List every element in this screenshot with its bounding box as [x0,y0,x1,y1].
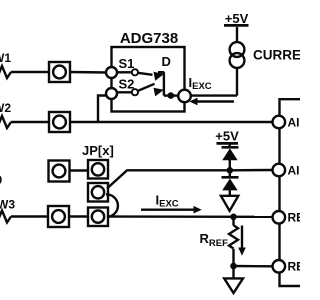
connector JP pin 1 left [49,161,70,182]
svg-text:REFIN(+): REFIN(+) [288,211,301,225]
pin S1 [106,67,117,78]
svg-text:+5V: +5V [215,128,239,143]
ground clamp [221,196,238,211]
connector T1 [49,62,70,82]
wire [236,68,238,96]
power +5V rail top [224,24,249,27]
svg-text:0: 0 [0,173,3,187]
wire [236,27,238,42]
svg-text:S2: S2 [119,77,135,92]
connector T2 [49,112,70,132]
wire [69,215,88,217]
switch S2 [117,84,164,97]
switch S1 [117,69,164,80]
pin AIN1 [273,116,286,129]
svg-text:W1: W1 [0,51,11,65]
power +5V rail clamp [217,142,239,145]
pin S2 [106,88,117,99]
wire arc jumper [106,194,118,216]
svg-text:AIN2: AIN2 [288,163,301,177]
wire [164,94,178,96]
svg-text:S1: S1 [119,56,135,71]
wire [107,170,230,188]
svg-text:W3: W3 [0,198,15,212]
svg-text:REFIN(−): REFIN(−) [288,260,301,274]
diode D2 clamp to ground [222,177,239,190]
connector JP pin 3 [88,208,108,227]
pin AIN2 [273,164,286,177]
annotation arrow Rref current [238,226,246,256]
wire [230,169,273,172]
svg-text:ADG738: ADG738 [120,30,178,47]
wire [11,121,49,123]
diode D1 clamp to +5V [222,147,239,160]
svg-text:AIN1: AIN1 [288,115,301,129]
wire [11,215,48,217]
node Rref bottom junction [230,263,237,270]
svg-text:JP[x]: JP[x] [82,143,114,158]
wire [234,265,273,268]
annotation arrow Iexc right [141,206,202,214]
annotation arrow Iexc into D [189,98,234,106]
wire [109,215,273,218]
node mux output junction [168,92,175,99]
wire [70,121,273,123]
connector T3 [48,206,69,227]
resistor W2 [0,116,11,128]
wire mux common bus [163,72,165,95]
ground Rref [224,278,243,293]
connector JP pin 2 [88,183,108,202]
resistor RREF [229,217,238,266]
current source I1 [230,42,245,68]
wire [229,160,231,170]
multiplexer U1 ADG738 box [112,47,185,112]
wire [70,169,88,171]
resistor W3 [0,211,11,223]
ADC connector box edge [280,99,301,286]
wire [191,94,237,96]
resistor W1 [0,66,11,78]
wire [229,170,231,177]
node Rref top junction [230,214,237,221]
svg-text:W2: W2 [0,101,11,115]
wire [229,190,231,195]
pin REFIN- [273,260,286,273]
wire [228,145,230,148]
wire [232,266,234,278]
wire [70,71,107,74]
wire [11,71,49,73]
pin D [178,90,191,103]
svg-text:+5V: +5V [225,11,249,26]
wire [98,96,107,123]
connector JP pin 1 right [88,160,108,179]
svg-text:CURRENT SOURCE: CURRENT SOURCE [253,48,300,63]
svg-text:D: D [162,54,171,69]
pin REFIN+ [273,211,286,224]
node clamp junction [227,167,234,174]
